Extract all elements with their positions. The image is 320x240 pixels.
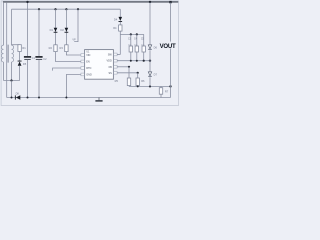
junction <box>136 60 138 62</box>
wire <box>128 85 130 88</box>
svg-text:D6: D6 <box>154 45 158 49</box>
wire <box>55 9 57 45</box>
capacitor C3 <box>130 34 132 46</box>
wire pin6 FB <box>117 66 129 68</box>
wire <box>66 52 79 55</box>
wire <box>149 50 151 72</box>
wire <box>119 31 121 54</box>
diode D8 <box>14 95 17 99</box>
junction <box>143 60 145 62</box>
capacitor C4 <box>136 34 138 46</box>
wire <box>3 62 5 81</box>
wire <box>4 80 20 82</box>
junction <box>137 72 139 74</box>
junction <box>130 33 132 35</box>
junction <box>65 8 67 10</box>
svg-text:VOUT: VOUT <box>160 43 176 50</box>
wire snubber top <box>12 44 20 46</box>
node VIN top rail <box>3 1 178 3</box>
wire <box>128 67 130 78</box>
pin 5 <box>113 72 118 74</box>
wire <box>11 9 13 45</box>
wire <box>27 60 29 98</box>
junction <box>136 33 138 35</box>
node VOUT label <box>158 42 176 49</box>
svg-text:D5: D5 <box>23 62 27 66</box>
wire <box>3 3 5 46</box>
svg-text:EN: EN <box>86 61 90 64</box>
svg-text:R5: R5 <box>115 79 119 83</box>
junction <box>137 85 139 87</box>
svg-text:VIN: VIN <box>86 54 90 57</box>
svg-text:R6: R6 <box>141 79 145 83</box>
svg-text:R2: R2 <box>49 46 53 50</box>
pin 4 <box>80 74 85 76</box>
pin 2 <box>80 61 85 63</box>
svg-text:FB: FB <box>109 66 113 69</box>
transformer T1 <box>1 45 13 63</box>
junction <box>169 1 171 3</box>
wire cap C1 riser <box>27 3 29 57</box>
wire pin4 to ground <box>66 75 79 98</box>
pin 7 <box>113 60 118 62</box>
border frame <box>1 1 178 106</box>
junction <box>130 60 132 62</box>
resistor R4 <box>119 25 122 31</box>
svg-text:D2: D2 <box>61 28 65 32</box>
svg-text:R1: R1 <box>22 46 26 50</box>
pin 3 <box>80 67 85 69</box>
junction <box>26 1 28 3</box>
wire <box>19 52 21 62</box>
junction <box>149 85 151 87</box>
ground <box>98 98 100 101</box>
wire <box>11 81 13 98</box>
capacitor C5 <box>143 34 145 46</box>
svg-text:RTN: RTN <box>86 67 91 70</box>
svg-text:R4: R4 <box>113 26 117 30</box>
svg-text:VDD: VDD <box>107 60 112 63</box>
diode D6 <box>148 45 151 49</box>
wire <box>56 52 80 62</box>
svg-text:D1: D1 <box>50 28 54 32</box>
junction <box>128 66 130 68</box>
wire <box>149 77 151 86</box>
resistor R3 <box>65 45 68 52</box>
wire <box>119 22 121 25</box>
node rail B <box>12 8 121 10</box>
svg-text:R3: R3 <box>60 46 64 50</box>
wire <box>137 73 139 78</box>
junction <box>65 97 67 99</box>
junction <box>38 97 40 99</box>
wire net stub <box>74 9 78 41</box>
diode D2 <box>65 28 69 32</box>
junction <box>77 8 79 10</box>
svg-text:R7: R7 <box>165 89 169 93</box>
resistor R6 <box>136 78 139 86</box>
wire <box>137 85 139 88</box>
wire <box>38 60 40 98</box>
node rail D <box>117 60 150 62</box>
node ground rail <box>7 97 171 99</box>
resistor R2 <box>54 45 57 52</box>
svg-text:SS: SS <box>108 72 112 75</box>
wire <box>65 9 67 45</box>
wire cap C2 riser <box>38 9 40 56</box>
wire pin8 link <box>117 54 120 56</box>
junction <box>149 1 151 3</box>
wire <box>170 3 172 98</box>
op IC U1 body <box>85 50 114 80</box>
svg-text:D7: D7 <box>154 72 158 76</box>
pin 1 <box>80 54 85 56</box>
diode D7 <box>148 72 151 76</box>
resistor R5 <box>127 78 130 86</box>
diode D5 <box>18 60 22 63</box>
wire pin5 SS <box>117 72 138 74</box>
junction <box>54 8 56 10</box>
wire <box>19 66 21 81</box>
wire <box>149 3 151 45</box>
junction <box>169 85 171 87</box>
junction <box>10 79 12 81</box>
wire <box>6 3 8 98</box>
wire <box>11 62 13 81</box>
svg-text:GND: GND <box>86 74 92 77</box>
diode D4 <box>119 17 123 21</box>
diode D1 <box>54 28 58 32</box>
junction <box>149 60 151 62</box>
svg-text:SW: SW <box>108 54 113 57</box>
junction <box>27 97 29 99</box>
node rail E <box>129 85 171 87</box>
capacitor C1 <box>24 56 31 58</box>
pin 6 <box>113 66 118 68</box>
junction <box>38 8 40 10</box>
resistor R1 <box>18 45 21 52</box>
svg-text:VP: VP <box>72 39 76 42</box>
resistor R7 <box>160 86 162 87</box>
svg-text:D4: D4 <box>114 17 118 21</box>
capacitor C2 <box>35 56 42 58</box>
wire pin3 stub <box>53 68 80 71</box>
node rail C <box>120 33 143 35</box>
wire chain x120 top <box>119 9 121 17</box>
pin 8 <box>113 54 118 56</box>
junction <box>11 97 13 99</box>
